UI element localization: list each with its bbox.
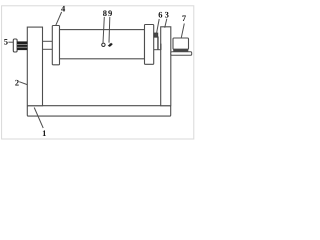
svg-text:3: 3: [165, 10, 169, 20]
leader line 9: [108, 17, 111, 43]
knurled hub (black): [17, 41, 27, 50]
svg-text:2: 2: [15, 77, 19, 87]
smudge on plate 3 edge: [160, 44, 161, 50]
left knob cap 5: [13, 39, 17, 52]
nozzle 9: [108, 43, 113, 47]
leader line 1: [34, 108, 43, 129]
leader line 6: [157, 19, 160, 33]
left flange of roller 4: [52, 26, 59, 65]
svg-text:1: 1: [42, 128, 46, 138]
roller cylinder 4: [60, 30, 145, 59]
svg-text:4: 4: [61, 4, 66, 14]
left upright plate 2: [27, 27, 42, 106]
motor foot strip: [173, 49, 188, 51]
shelf arm under motor 7: [171, 52, 192, 56]
leader line 7: [181, 24, 184, 39]
svg-text:9: 9: [108, 8, 112, 18]
shaft between plate 2 and flange: [43, 40, 52, 42]
motor box 7: [173, 38, 189, 49]
coupling bar (dark): [157, 37, 158, 50]
leader line 3: [165, 19, 167, 28]
right upright plate 3: [161, 27, 171, 106]
svg-text:5: 5: [4, 36, 8, 46]
border frame: [2, 6, 194, 139]
shaft line to plate 3: [154, 49, 161, 51]
svg-text:8: 8: [103, 8, 107, 18]
base 1: [27, 106, 170, 116]
sensor circle 8: [102, 43, 105, 46]
leader line 2: [19, 82, 27, 85]
right end plate of roller: [145, 25, 154, 65]
leader line 4: [56, 12, 62, 25]
leader line 5: [8, 41, 13, 43]
bearing block 6: [154, 33, 158, 37]
leader line 8: [103, 17, 104, 43]
svg-text:6: 6: [158, 9, 162, 19]
